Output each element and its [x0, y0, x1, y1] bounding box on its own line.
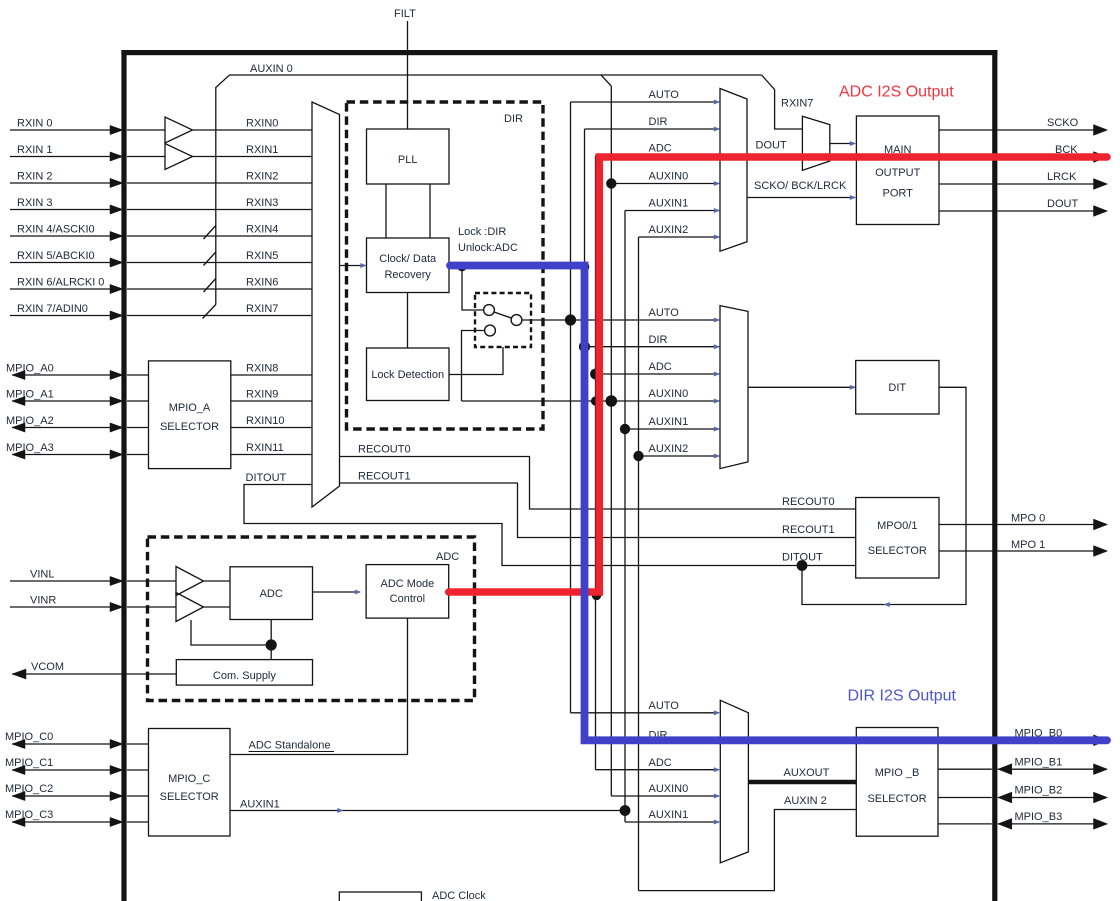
svg-text:DIR: DIR	[504, 113, 523, 125]
svg-text:AUXOUT: AUXOUT	[784, 767, 830, 779]
wire AUXIN1 into MPIO_B mux	[625, 821, 719, 823]
svg-text:FILT: FILT	[394, 8, 416, 20]
svg-text:RXIN11: RXIN11	[246, 442, 284, 454]
svg-text:DITOUT: DITOUT	[782, 552, 823, 564]
junction dot AUXIN2 middle	[633, 451, 643, 461]
wire AUXIN2 into DIT mux	[639, 455, 720, 457]
wire DIR into main output mux	[585, 128, 720, 130]
wire DIT mux to DIT	[748, 386, 855, 388]
svg-text:MPIO_C2: MPIO_C2	[5, 783, 53, 795]
wire AUXOUT thick	[748, 780, 856, 785]
switch contact upper	[484, 305, 495, 316]
svg-text:AUXIN0: AUXIN0	[649, 171, 689, 183]
wire RXIN8 from MPIO_A selector	[231, 374, 312, 376]
svg-text:AUTO: AUTO	[649, 89, 680, 101]
svg-text:RXIN 0: RXIN 0	[17, 117, 52, 129]
buffer RXIN0	[165, 117, 193, 143]
wire AUXIN0 into DIT mux	[462, 400, 720, 402]
block MPIO_B SELECTOR	[856, 728, 938, 837]
buffer VINL	[176, 567, 204, 596]
block MPIO_A SELECTOR	[149, 361, 231, 469]
svg-text:ADC: ADC	[649, 361, 672, 373]
svg-text:ADC Clock: ADC Clock	[432, 890, 486, 901]
wire AUXIN0 into MPIO_B mux	[611, 795, 719, 797]
svg-text:RXIN3: RXIN3	[246, 197, 278, 209]
junction dot ADC bus at red corner	[592, 591, 602, 601]
svg-text:SELECTOR: SELECTOR	[867, 793, 926, 805]
svg-text:RXIN8: RXIN8	[246, 362, 278, 374]
svg-text:RXIN7: RXIN7	[246, 303, 278, 315]
wire RECOUT1	[340, 483, 856, 538]
svg-text:MPIO_C3: MPIO_C3	[5, 809, 53, 821]
svg-text:RXIN1: RXIN1	[246, 144, 278, 156]
bus ADC vertical	[595, 156, 597, 770]
svg-text:AUTO: AUTO	[649, 700, 680, 712]
svg-text:VCOM: VCOM	[31, 661, 64, 673]
svg-text:RXIN5: RXIN5	[246, 250, 278, 262]
wire AUXIN0 bus tap diagonal	[601, 75, 611, 86]
wire AUXIN0 into main output mux	[611, 183, 719, 185]
wire RECOUT0	[340, 457, 856, 510]
svg-text:RECOUT1: RECOUT1	[358, 470, 411, 482]
wire AUXIN1 from MPIO_C selector	[230, 810, 625, 812]
junction dot ADC-AUXIN0 row	[591, 396, 600, 405]
svg-text:AUXIN1: AUXIN1	[240, 799, 280, 811]
svg-text:AUXIN2: AUXIN2	[649, 224, 689, 236]
mux input selector	[312, 102, 340, 507]
wire RXIN5 internal	[127, 262, 312, 264]
wire DIR into MPIO_B mux	[585, 739, 720, 741]
chip outer border left	[121, 50, 126, 901]
svg-text:RECOUT0: RECOUT0	[782, 496, 835, 508]
wire ADC to ADC Mode Control	[313, 591, 361, 593]
svg-text:ADC Mode: ADC Mode	[381, 578, 435, 590]
svg-text:ADC I2S Output: ADC I2S Output	[839, 84, 954, 101]
svg-text:PORT: PORT	[883, 188, 914, 200]
svg-text:RXIN9: RXIN9	[246, 388, 278, 400]
wire RXIN3 internal	[127, 209, 312, 211]
wire ADC into DIT mux	[596, 373, 720, 375]
svg-text:RXIN7: RXIN7	[781, 98, 813, 110]
switch contact output	[511, 315, 522, 326]
svg-text:RXIN6: RXIN6	[246, 276, 278, 288]
wire PLL to Clock/Data Recovery left	[385, 184, 387, 238]
svg-text:RXIN 2: RXIN 2	[17, 170, 52, 182]
svg-text:MPIO_B1: MPIO_B1	[1015, 756, 1063, 768]
svg-text:Unlock:ADC: Unlock:ADC	[458, 242, 518, 254]
svg-text:DIR: DIR	[649, 116, 668, 128]
svg-text:Lock Detection: Lock Detection	[371, 369, 444, 381]
wire buffer bias feedback	[191, 620, 271, 645]
svg-text:RXIN 6/ALRCKI 0: RXIN 6/ALRCKI 0	[17, 276, 104, 288]
bus AUXIN1 vertical	[624, 211, 626, 823]
bus AUXIN2 vertical	[638, 237, 640, 891]
wire DIR tap to switch upper contact	[462, 266, 483, 311]
svg-text:AUXIN 0: AUXIN 0	[250, 63, 293, 75]
wire ADC into main output mux	[596, 155, 720, 157]
mux MPIO_B source selector	[720, 700, 748, 863]
wire RXIN7 feed to output mux	[762, 75, 803, 129]
block ADC Mode Control	[366, 565, 449, 619]
svg-text:Clock/ Data: Clock/ Data	[379, 253, 437, 265]
bus AUXIN0 vertical	[610, 86, 612, 796]
wire Clock/Data Recovery DIR output	[449, 265, 585, 267]
block ADC dashed boundary	[148, 537, 475, 701]
svg-text:SELECTOR: SELECTOR	[160, 421, 219, 433]
wire RXIN10 from MPIO_A selector	[231, 427, 312, 429]
wire DIT output loop	[802, 387, 966, 604]
svg-text:OUTPUT: OUTPUT	[875, 167, 921, 179]
junction dot DIR middle	[579, 341, 590, 352]
svg-text:MPIO_C: MPIO_C	[168, 773, 210, 785]
bus tap slash RXIN6	[204, 279, 216, 293]
wire RXIN0 internal	[127, 129, 165, 131]
wire SCKO/BCK/LRCK to MAIN OUTPUT PORT	[747, 197, 855, 199]
wire RXIN2 internal	[127, 182, 312, 184]
svg-text:AUXIN2: AUXIN2	[649, 443, 689, 455]
svg-text:RXIN 3: RXIN 3	[17, 197, 52, 209]
svg-text:RXIN10: RXIN10	[246, 415, 285, 427]
svg-text:DIR: DIR	[649, 334, 668, 346]
block Com Supply	[176, 660, 312, 686]
svg-text:AUXIN0: AUXIN0	[649, 783, 689, 795]
svg-text:MPIO _B: MPIO _B	[875, 767, 920, 779]
block Clock/Data Recovery	[367, 238, 450, 293]
bus tap slash RXIN7	[203, 305, 216, 319]
block MAIN OUTPUT PORT	[856, 116, 939, 225]
switch dashed boundary	[475, 293, 531, 347]
svg-text:AUXIN 2: AUXIN 2	[784, 795, 827, 807]
wire DOUT from main mux	[747, 156, 802, 158]
svg-text:RXIN 7/ADIN0: RXIN 7/ADIN0	[17, 303, 88, 315]
svg-text:MPIO_A: MPIO_A	[169, 402, 211, 414]
wire RXIN4 internal	[127, 235, 312, 237]
svg-text:RXIN4: RXIN4	[246, 223, 278, 235]
wire AUXIN2 loop	[639, 810, 857, 891]
wire AUTO into DIT mux	[522, 319, 719, 321]
svg-text:MPIO_A1: MPIO_A1	[6, 388, 54, 400]
svg-text:MPO 0: MPO 0	[1011, 512, 1045, 524]
wire Lock Detection to switch	[449, 347, 503, 375]
junction dot DIR tap	[457, 262, 467, 272]
wire AUXIN0 top horizontal	[216, 75, 762, 305]
mux RXIN7/DOUT selector	[802, 116, 829, 170]
svg-text:RXIN2: RXIN2	[246, 170, 278, 182]
wire buffers to ADC	[204, 580, 231, 582]
wire AUXIN2 into main output mux	[639, 236, 720, 238]
junction dot AUXIN1 middle	[620, 424, 630, 434]
svg-text:MPIO_A3: MPIO_A3	[6, 442, 54, 454]
switch contact lower	[485, 325, 496, 336]
svg-text:PLL: PLL	[398, 154, 418, 166]
svg-text:SELECTOR: SELECTOR	[160, 791, 219, 803]
highlight path ADC I2S (red)	[449, 157, 1107, 592]
svg-text:MPIO_C1: MPIO_C1	[5, 757, 53, 769]
wire AUTO into main output mux	[571, 101, 720, 103]
chip outer border right	[992, 50, 997, 901]
mux DIT input selector	[720, 306, 748, 469]
wire ADC to Com Supply	[270, 620, 272, 660]
junction dot DIR bus at blue corner	[580, 262, 590, 272]
wire AUXIN1 into DIT mux	[625, 428, 719, 430]
wire AUXIN1 into main output mux	[625, 210, 719, 212]
svg-text:ADC Standalone: ADC Standalone	[249, 740, 331, 752]
wire RXIN11 from MPIO_A selector	[231, 454, 312, 456]
svg-text:ADC: ADC	[649, 757, 672, 769]
buffer VINR	[176, 593, 204, 622]
junction dot ADC middle	[590, 369, 601, 380]
block DIT	[856, 361, 939, 415]
junction dot AUXIN0 upper	[606, 178, 616, 188]
wire DIR into DIT mux	[585, 346, 720, 348]
svg-text:DIT: DIT	[888, 382, 906, 394]
bus AUTO vertical	[570, 102, 572, 713]
svg-text:MPIO_B3: MPIO_B3	[1015, 811, 1063, 823]
svg-text:RECOUT0: RECOUT0	[358, 443, 411, 455]
bus DIR vertical	[584, 129, 586, 740]
block MPIO_C SELECTOR	[149, 729, 231, 837]
wire ADC Standalone	[230, 618, 408, 754]
wire RXIN6 internal	[127, 288, 312, 290]
svg-text:ADC: ADC	[260, 588, 283, 600]
svg-text:MPIO_C0: MPIO_C0	[5, 731, 53, 743]
svg-text:AUXIN1: AUXIN1	[649, 198, 689, 210]
svg-text:MPO0/1: MPO0/1	[877, 520, 917, 532]
switch lever	[494, 312, 511, 318]
svg-text:MPIO_A2: MPIO_A2	[6, 415, 54, 427]
junction dot bias	[266, 639, 277, 650]
svg-text:DITOUT: DITOUT	[246, 472, 287, 484]
svg-text:SELECTOR: SELECTOR	[868, 545, 927, 557]
svg-text:MPO 1: MPO 1	[1011, 539, 1045, 551]
buffer RXIN1	[165, 144, 193, 170]
block PLL	[367, 129, 450, 184]
svg-text:ADC: ADC	[649, 143, 672, 155]
svg-text:Control: Control	[390, 593, 425, 605]
chip outer border top	[121, 50, 997, 55]
wire small mux to MAIN OUTPUT PORT	[830, 143, 855, 145]
svg-text:MPIO_A0: MPIO_A0	[6, 362, 54, 374]
svg-text:Lock :DIR: Lock :DIR	[458, 226, 506, 238]
svg-text:DOUT: DOUT	[1047, 198, 1078, 210]
svg-text:AUXIN1: AUXIN1	[649, 416, 689, 428]
wire ADC into MPIO_B mux	[596, 769, 720, 771]
wire PLL to Clock/Data Recovery right	[429, 184, 431, 238]
wire mux to Clock/Data Recovery	[340, 265, 366, 267]
svg-text:Recovery: Recovery	[384, 269, 431, 281]
svg-text:AUXIN1: AUXIN1	[649, 809, 689, 821]
svg-text:RECOUT1: RECOUT1	[782, 524, 835, 536]
wire RXIN9 from MPIO_A selector	[231, 400, 312, 402]
svg-text:AUXIN0: AUXIN0	[649, 388, 689, 400]
block Lock Detection	[367, 348, 450, 401]
junction dot AUXIN1 from MPIO_C	[620, 805, 631, 816]
svg-text:Com. Supply: Com. Supply	[213, 670, 276, 682]
wire DITOUT to input mux	[244, 485, 856, 566]
svg-text:DIR I2S Output: DIR I2S Output	[848, 688, 957, 705]
highlight path DIR I2S (blue)	[450, 266, 1107, 741]
svg-text:RXIN 5/ABCKI0: RXIN 5/ABCKI0	[17, 250, 95, 262]
block DIR dashed boundary	[347, 102, 544, 429]
block MPO0/1 SELECTOR	[856, 498, 939, 579]
junction dot AUXIN0 middle	[606, 395, 618, 407]
svg-text:SCKO/ BCK/LRCK: SCKO/ BCK/LRCK	[754, 180, 847, 192]
wire RXIN7 internal	[127, 315, 312, 317]
mux main output selector	[720, 89, 747, 252]
svg-text:VINL: VINL	[30, 568, 54, 580]
bus tap slash RXIN4	[204, 226, 216, 240]
junction dot AUTO switch output	[565, 314, 576, 325]
svg-text:AUTO: AUTO	[649, 307, 680, 319]
wire RXIN1 internal	[127, 156, 165, 158]
wire FILT to PLL	[407, 21, 409, 129]
svg-text:MPIO_B2: MPIO_B2	[1015, 785, 1063, 797]
block ADC converter	[230, 567, 313, 620]
svg-text:LRCK: LRCK	[1047, 171, 1077, 183]
wire Clock/Data Recovery to Lock Detection	[407, 293, 409, 349]
block ADC Clock	[339, 892, 421, 901]
wire AUTO into MPIO_B mux	[571, 712, 720, 714]
svg-text:DOUT: DOUT	[756, 139, 787, 151]
junction dot DITOUT	[797, 560, 808, 571]
svg-text:VINR: VINR	[30, 594, 56, 606]
svg-text:RXIN0: RXIN0	[246, 117, 278, 129]
wire switch lower contact to AUXIN0 row	[462, 331, 485, 402]
svg-text:RXIN 1: RXIN 1	[17, 144, 52, 156]
bus tap slash RXIN5	[204, 252, 216, 266]
svg-text:ADC: ADC	[436, 551, 459, 563]
svg-text:RXIN 4/ASCKI0: RXIN 4/ASCKI0	[17, 223, 95, 235]
svg-text:SCKO: SCKO	[1047, 117, 1079, 129]
